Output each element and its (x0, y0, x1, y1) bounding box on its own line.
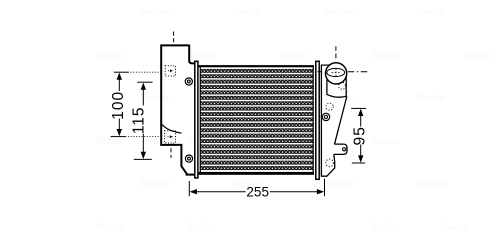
intercooler core (hatched) (199, 65, 315, 175)
right end plate (316, 61, 319, 179)
left end plate (195, 61, 198, 178)
svg-text:TecDoc: TecDoc (140, 7, 171, 17)
svg-text:100: 100 (110, 91, 127, 120)
svg-text:TecDoc: TecDoc (186, 50, 217, 60)
mounting lug on tank (334, 144, 347, 154)
svg-text:115: 115 (131, 106, 148, 134)
tank rivet (322, 113, 329, 120)
tank right slant edge from pipe to lug (335, 97, 347, 145)
svg-text:TecDoc: TecDoc (278, 50, 309, 60)
svg-text:TecDoc: TecDoc (440, 222, 471, 232)
svg-text:TecDoc: TecDoc (94, 222, 125, 232)
dimension 255 (bottom) (189, 179, 324, 196)
top bracket rivet (185, 78, 192, 85)
pipe vertical centerline (335, 46, 337, 60)
pipe center mark (332, 68, 341, 76)
core side borders (200, 67, 201, 172)
hidden hole upper (dotted circle) (326, 103, 333, 110)
pipe opening circle (326, 63, 347, 84)
svg-text:TecDoc: TecDoc (140, 93, 171, 103)
svg-text:TecDoc: TecDoc (94, 50, 125, 60)
svg-text:95: 95 (352, 126, 369, 146)
svg-text:TecDoc: TecDoc (370, 136, 401, 146)
top mounting hole (dotted square) (165, 66, 175, 76)
svg-text:TecDoc: TecDoc (186, 222, 217, 232)
left mounting bracket outline (161, 45, 195, 175)
lower bracket rivet (185, 155, 192, 162)
lower hole centerline (dash below bracket) (170, 148, 172, 158)
core bottom bar (199, 172, 315, 175)
svg-text:TecDoc: TecDoc (462, 50, 489, 60)
dimension 115 (left inner) (134, 82, 153, 159)
svg-text:255: 255 (246, 185, 269, 200)
hidden hole in cylinder (dotted circle) (339, 82, 346, 89)
svg-text:TecDoc: TecDoc (416, 179, 447, 189)
tank left edge and bottom (321, 65, 334, 176)
top hole centerline (dash above bracket) (173, 32, 175, 45)
svg-text:TecDoc: TecDoc (416, 7, 447, 17)
tank top lip (321, 64, 330, 66)
hidden hole lower (dotted circle) (326, 159, 334, 167)
pipe bore ellipse (327, 68, 345, 76)
svg-text:TecDoc: TecDoc (140, 179, 171, 189)
right tank outline (321, 65, 347, 176)
svg-text:TecDoc: TecDoc (94, 136, 125, 146)
svg-text:TecDoc: TecDoc (370, 50, 401, 60)
svg-text:TecDoc: TecDoc (416, 93, 447, 103)
pipe cylinder below opening (327, 77, 346, 98)
svg-text:TecDoc: TecDoc (324, 7, 355, 17)
dimension 95 (right) (351, 108, 366, 163)
lower mounting hole (dotted square) (165, 131, 176, 143)
svg-text:TecDoc: TecDoc (232, 7, 263, 17)
pipe horizontal centerline (348, 71, 369, 73)
dimension 100 (left outer) (111, 72, 160, 136)
svg-text:TecDoc: TecDoc (370, 222, 401, 232)
watermark background texts (94, 7, 489, 232)
svg-text:TecDoc: TecDoc (324, 179, 355, 189)
bracket fold line (162, 124, 182, 133)
core top bar (199, 65, 315, 67)
